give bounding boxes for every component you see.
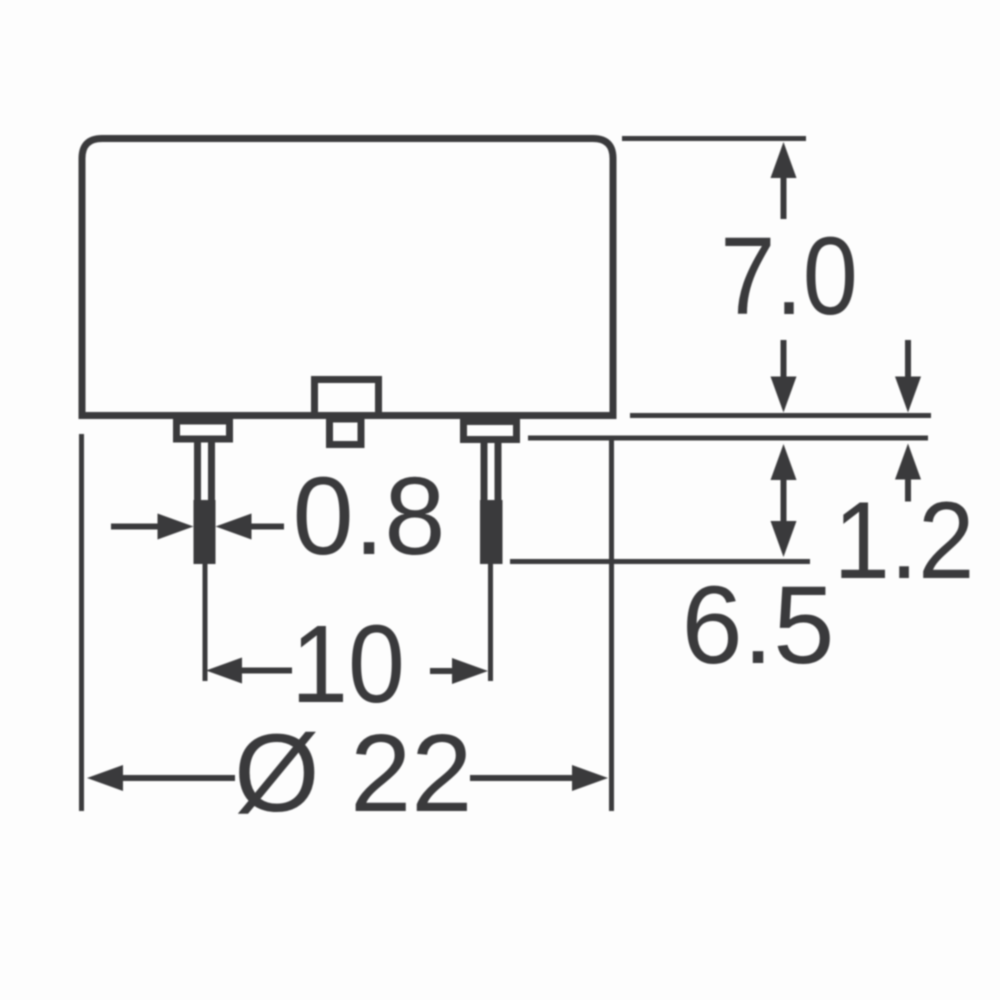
center tab lower stub	[330, 419, 362, 445]
dim 0.8 left arrow (points right)	[111, 524, 159, 530]
dim 7.0 upper arrow (up)	[771, 142, 797, 178]
left body extension line	[79, 434, 84, 811]
left pin solid tip	[194, 500, 216, 564]
dim 10 right arrow (points right)	[430, 668, 454, 674]
right pin solid tip	[480, 500, 503, 564]
left pin cap	[177, 421, 230, 439]
svg-text:6.5: 6.5	[682, 564, 835, 687]
center tab upper block	[315, 380, 379, 416]
dim 6.5 double arrow	[771, 444, 797, 480]
seating plane reference line right	[630, 413, 931, 418]
svg-text:7.0: 7.0	[720, 215, 858, 338]
pin cap bottom reference line	[528, 436, 928, 441]
dim diameter 22 right arrow (points right)	[470, 775, 574, 781]
right pin cap	[464, 422, 517, 440]
svg-text:0.8: 0.8	[293, 455, 446, 578]
top reference line (body top level)	[622, 136, 806, 141]
body bottom seating line	[79, 412, 617, 419]
dim 1.2 upper arrow (down)	[905, 340, 911, 378]
svg-text:1.2: 1.2	[834, 479, 975, 602]
svg-text:Ø 22: Ø 22	[234, 712, 472, 835]
right pin centerline extension	[488, 564, 493, 681]
dim 7.0 lower arrow (down)	[781, 340, 787, 378]
right pin hollow lead walls	[481, 442, 488, 505]
left pin centerline extension	[203, 564, 208, 681]
right body extension line	[609, 437, 614, 811]
dim 10 left arrow (points left)	[206, 658, 242, 684]
component body outline	[82, 139, 613, 420]
dim 1.2 lower arrow (up)	[895, 444, 921, 480]
dim 0.8 right arrow (points left)	[216, 514, 252, 540]
dim diameter 22 left arrow (points left)	[87, 765, 123, 791]
svg-text:10: 10	[291, 603, 405, 726]
left pin hollow lead walls	[194, 442, 201, 505]
pin tip reference line	[510, 559, 810, 564]
